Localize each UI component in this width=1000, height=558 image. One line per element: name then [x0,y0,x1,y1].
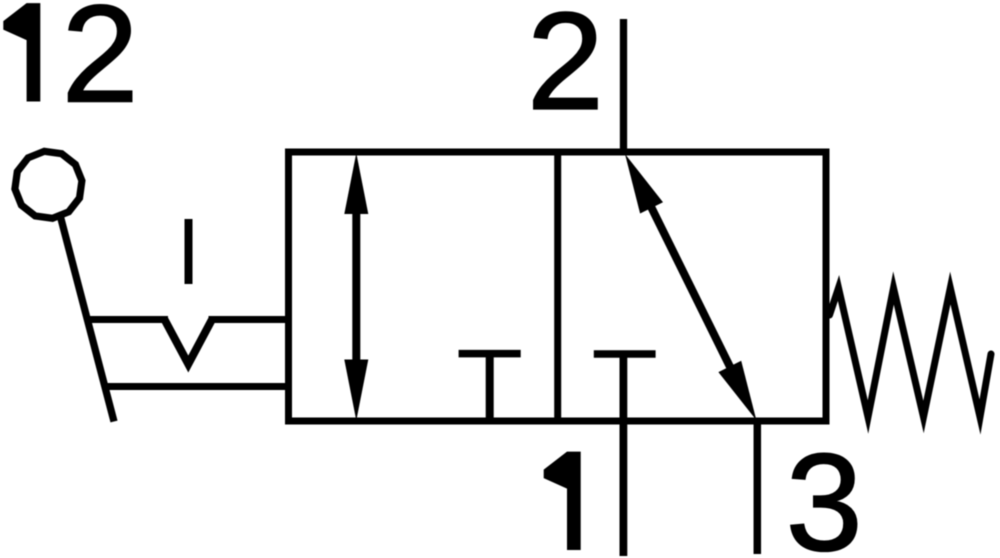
right chamber diagonal double arrow (2 to 3) [625,154,756,420]
right chamber T bar (blocked port 1) [594,350,656,358]
detent upper line left segment [86,316,168,323]
svg-text:2: 2 [527,0,604,139]
detent notch V [165,320,213,365]
detent pin [185,219,193,284]
label 1 [544,452,581,550]
svg-text:2: 2 [62,0,139,132]
port 2 line [620,19,627,152]
return spring [830,288,992,417]
valve body divider [554,152,561,421]
lever arm [60,215,114,422]
valve body outline [289,152,827,421]
detent upper line right segment [209,316,293,323]
left chamber T (blocked port) [459,354,521,421]
label 12 [3,0,138,132]
port 1 line [620,354,628,556]
port 3 line [754,421,762,554]
svg-text:3: 3 [786,426,863,558]
left chamber vertical double arrow [344,153,368,421]
detent lower line [104,383,292,390]
lever knob [15,151,82,218]
